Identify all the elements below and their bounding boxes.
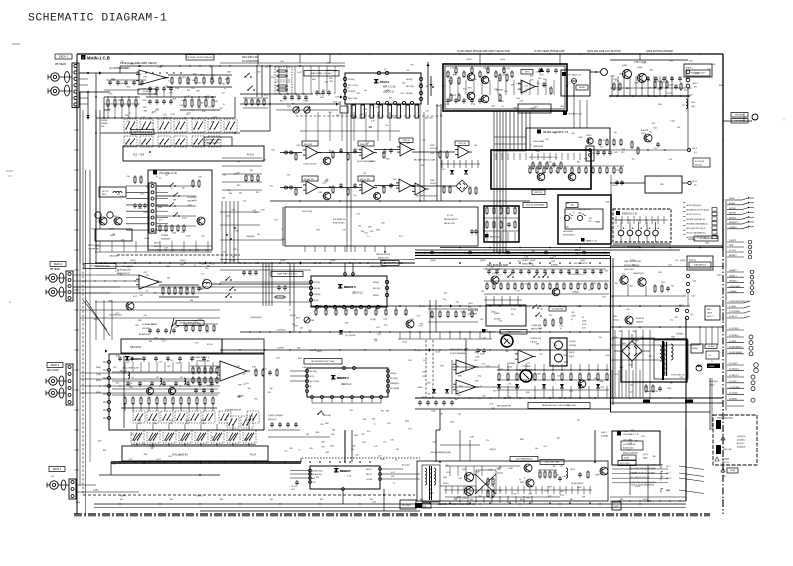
svg-text:MC AMP (DECK(B) (B): MC AMP (DECK(B) (B) <box>416 195 437 198</box>
pcb label MAIN-2 CB <box>581 238 585 242</box>
svg-text:(C 252: (C 252 <box>447 215 454 217</box>
svg-text:R21: R21 <box>408 429 411 431</box>
svg-text:R33: R33 <box>232 210 235 212</box>
svg-text:C44: C44 <box>372 419 375 421</box>
wire dolby4 right leads <box>382 468 404 470</box>
scan speck 2 <box>6 170 13 172</box>
svg-text:47p: 47p <box>241 396 244 398</box>
svg-text:R12: R12 <box>222 84 225 86</box>
svg-text:CH GND: CH GND <box>366 479 373 481</box>
svg-text:(C) 2(C)(M)(B): (C) 2(C)(M)(B) <box>729 311 740 313</box>
svg-text:R21: R21 <box>654 128 657 130</box>
svg-text:SP(B): SP(B) <box>169 423 173 425</box>
svg-text:+(B): +(B) <box>691 106 695 108</box>
svg-text:POWER: POWER <box>709 366 716 368</box>
svg-text:220: 220 <box>356 454 359 456</box>
svg-text:1u: 1u <box>573 211 575 213</box>
label bias trap coil adj 2 <box>271 272 303 277</box>
svg-text:R-CH: R-CH <box>250 455 256 457</box>
svg-text:GND BA(: GND BA( <box>323 414 331 417</box>
svg-text:R21: R21 <box>193 74 196 76</box>
wire pb L signal <box>79 72 139 74</box>
svg-text:(B)(C)(C)2: (B)(C)(C)2 <box>268 419 276 421</box>
svg-text:PB HEAD: PB HEAD <box>55 63 66 66</box>
svg-text:(C)2 (M)4(B): (C)2 (M)4(B) <box>142 91 152 93</box>
svg-text:100K: 100K <box>290 153 295 155</box>
svg-text:T(M)(C): T(M)(C) <box>443 483 449 485</box>
svg-text:47p: 47p <box>237 161 240 163</box>
filter LPF L07 <box>99 187 126 197</box>
wire volume1 verticals <box>95 110 97 263</box>
svg-text:R47: R47 <box>410 64 413 66</box>
svg-text:DECK-2: DECK-2 <box>51 365 60 367</box>
mid vertical bundle left <box>221 201 223 263</box>
scan speck 4 <box>9 301 11 303</box>
top-left extra density <box>108 81 112 83</box>
wire x686 long vertical <box>685 318 687 501</box>
svg-text:NR-2 C.B: NR-2 C.B <box>337 376 349 380</box>
svg-text:220: 220 <box>239 193 242 195</box>
svg-text:R33: R33 <box>530 75 533 77</box>
svg-text:220: 220 <box>486 440 489 442</box>
svg-text:VOLUME-2 C.B: VOLUME-2 C.B <box>623 434 639 436</box>
svg-text:( REF ): ( REF ) <box>196 496 203 498</box>
svg-text:D(C)(B) ONE(C)2: D(C)(B) ONE(C)2 <box>571 483 584 485</box>
svg-text:Q451-452 LINE OUT MUTING: Q451-452 LINE OUT MUTING <box>587 50 621 53</box>
connector right rows group A <box>727 199 742 201</box>
svg-text:AT AMP A.(C): AT AMP A.(C) <box>139 333 151 336</box>
svg-text:0.47: 0.47 <box>498 101 502 103</box>
svg-text:100K: 100K <box>264 95 269 97</box>
svg-text:10u: 10u <box>632 158 635 160</box>
wire verticals bottom left <box>110 462 112 475</box>
svg-text:C05: C05 <box>693 281 696 283</box>
svg-text:220: 220 <box>589 218 592 220</box>
svg-text:0.022: 0.022 <box>636 486 641 488</box>
svg-text:220: 220 <box>167 278 170 280</box>
svg-text:SP(B): SP(B) <box>137 423 141 425</box>
wire muting bus <box>610 95 690 97</box>
top-left cluster rails2 <box>104 89 140 91</box>
op-amp IC31 <box>139 275 159 289</box>
svg-text:C05: C05 <box>538 78 541 80</box>
connector cm row2 <box>285 186 288 189</box>
svg-text:10u: 10u <box>615 283 618 285</box>
svg-text:C44: C44 <box>280 61 283 63</box>
switch input select b <box>173 195 175 197</box>
svg-text:(C) L(M)(C): (C) L(M)(C) <box>729 363 738 365</box>
svg-text:220: 220 <box>626 309 629 311</box>
op-amp IC203a <box>458 146 469 158</box>
svg-text:L(NE OUT MUT(NG: L(NE OUT MUT(NG <box>624 261 641 263</box>
arrow bus462 <box>200 460 202 463</box>
svg-text:100K: 100K <box>610 76 615 78</box>
op-amp IC205 row2 <box>399 179 411 192</box>
svg-text:220: 220 <box>421 165 424 167</box>
svg-text:REC (N(L): REC (N(L) <box>390 378 398 380</box>
svg-text:BIAS TRAP COIL ADJ: BIAS TRAP COIL ADJ <box>311 72 333 75</box>
label pb sensitivity adj <box>131 130 154 135</box>
svg-text:D(SPLAY C.B: D(SPLAY C.B <box>622 213 637 216</box>
svg-text:220: 220 <box>151 324 154 326</box>
wire diagonal head wires <box>83 300 107 330</box>
svg-text:R21: R21 <box>254 398 257 400</box>
svg-text:0.022: 0.022 <box>391 115 396 117</box>
svg-text:10u: 10u <box>675 260 678 262</box>
svg-text:(C) (B)(C)(M)(C)2: (C) (B)(C)(M)(C)2 <box>729 346 742 348</box>
svg-text:C(B)(C)(M): C(B)(C)(M) <box>109 256 118 258</box>
switch matrix rec row2 <box>227 416 239 428</box>
svg-text:R12: R12 <box>282 239 285 241</box>
svg-text:NJM4565F: NJM4565F <box>161 239 171 241</box>
svg-text:(CC6) BACKUP: (CC6) BACKUP <box>384 262 397 265</box>
svg-text:METER (NPUT: METER (NPUT <box>444 219 458 221</box>
svg-text:L07 1/2: L07 1/2 <box>102 191 108 193</box>
svg-text:(CC201 WHO(E)EU)P: (CC201 WHO(E)EU)P <box>357 161 376 163</box>
svg-text:(R): (R) <box>694 87 697 89</box>
transistor Q202 <box>323 192 331 200</box>
top left nodes2 <box>145 72 146 73</box>
svg-text:HC3502: HC3502 <box>522 260 529 262</box>
passives deck1 rec block <box>124 398 126 404</box>
svg-text:1u: 1u <box>289 310 291 312</box>
svg-text:R2(C) (W: R2(C) (W <box>459 143 466 145</box>
hp top rail nodes <box>454 63 456 65</box>
svg-text:220: 220 <box>129 383 132 385</box>
svg-text:SP(B): SP(B) <box>185 423 189 425</box>
svg-text:0.47: 0.47 <box>376 327 380 329</box>
passives muting extra <box>674 85 678 87</box>
wire meter hlines <box>494 136 526 138</box>
svg-text:C31: C31 <box>320 412 323 414</box>
svg-text:C05: C05 <box>168 456 171 458</box>
pin row dolby2 left <box>309 280 312 283</box>
ic block small right <box>400 500 416 509</box>
svg-text:DC OUT(L)R: DC OUT(L)R <box>695 161 705 163</box>
connector fingers dolby1 <box>352 105 355 118</box>
label phones inner <box>576 85 588 90</box>
svg-text:1u: 1u <box>374 424 376 426</box>
svg-text:10u: 10u <box>689 95 692 97</box>
svg-text:R12: R12 <box>144 77 147 79</box>
svg-text:REC (B): REC (B) <box>314 288 321 290</box>
svg-text:C(M)(B)(M): C(M)(B)(M) <box>246 236 255 238</box>
resistor diode columns regulator <box>498 374 500 380</box>
svg-text:C05: C05 <box>202 111 205 113</box>
wire feedback top <box>120 65 212 67</box>
arrow bus350 <box>428 348 430 351</box>
svg-text:R08: R08 <box>606 201 609 203</box>
svg-text:(55)(C): (55)(C) <box>613 320 619 322</box>
trimmer vr31 <box>304 317 310 323</box>
svg-text:(B)4: (B)4 <box>320 499 323 501</box>
svg-text:CM3-2 SH/M: CM3-2 SH/M <box>533 141 544 143</box>
svg-text:R47: R47 <box>632 331 635 333</box>
svg-text:47p: 47p <box>227 215 230 217</box>
svg-text:47p: 47p <box>243 374 246 376</box>
pin labels dolby4 right <box>379 468 382 471</box>
svg-text:C44: C44 <box>680 377 683 379</box>
label DECK-1 <box>55 54 72 59</box>
led LED201 <box>564 215 569 220</box>
svg-text:R21: R21 <box>446 472 449 474</box>
svg-text:0.47: 0.47 <box>458 478 462 480</box>
svg-text:47p: 47p <box>443 299 446 301</box>
svg-text:NR-2 C.B: NR-2 C.B <box>340 470 351 473</box>
transistor Q204a <box>481 76 489 84</box>
svg-text:Q455 Q454: Q455 Q454 <box>624 269 634 271</box>
svg-text:LEC(MA) (ADA): LEC(MA) (ADA) <box>700 237 713 240</box>
connector right rows group D <box>727 302 744 304</box>
ic252 box density <box>514 208 516 213</box>
svg-text:L302: L302 <box>551 261 555 263</box>
svg-text:0.022: 0.022 <box>182 218 187 220</box>
switch matrix rec row <box>133 411 145 423</box>
svg-text:R33: R33 <box>705 242 708 244</box>
wire r65 link <box>610 182 645 184</box>
svg-text:(M)(B)(C)(C)(B)(C)(M): (M)(B)(C)(C)(B)(C)(M) <box>623 453 638 455</box>
svg-text:C05: C05 <box>179 105 182 107</box>
led bank display <box>618 230 624 236</box>
rec block extra rows <box>124 362 126 372</box>
svg-text:R33: R33 <box>505 351 508 353</box>
svg-text:C05: C05 <box>453 74 456 76</box>
svg-text:C44: C44 <box>156 281 159 283</box>
svg-text:C44: C44 <box>363 109 366 111</box>
svg-text:UH-O(T DROP (C): UH-O(T DROP (C) <box>686 214 701 216</box>
svg-text:R47: R47 <box>363 442 366 444</box>
pin row dolby3 bottom <box>311 396 314 399</box>
svg-text:R20(B) 1W: R20(B) 1W <box>304 179 314 181</box>
border top nodes <box>99 53 100 54</box>
svg-text:0.47: 0.47 <box>287 175 291 177</box>
svg-text:R08: R08 <box>536 151 539 153</box>
transistor Q801 <box>625 316 633 324</box>
power block outer box <box>621 339 687 382</box>
nodes y350 <box>239 349 240 350</box>
svg-text:10u: 10u <box>316 477 319 479</box>
svg-text:10u: 10u <box>671 285 674 287</box>
svg-text:1u: 1u <box>532 265 534 267</box>
svg-text:47p: 47p <box>564 366 567 368</box>
relay box <box>550 338 567 366</box>
svg-text:C44: C44 <box>474 145 477 147</box>
svg-text:0.022: 0.022 <box>198 319 203 321</box>
cell33 parts <box>304 246 306 252</box>
svg-text:220: 220 <box>557 375 560 377</box>
hp to meter wires <box>573 96 575 128</box>
svg-text:0.022: 0.022 <box>597 474 602 476</box>
display box stubs <box>620 236 622 242</box>
svg-text:47p: 47p <box>296 95 299 97</box>
pcb label DOLBY NR-2 C.B deck1 big <box>109 354 264 430</box>
svg-text:220: 220 <box>178 454 181 456</box>
svg-text:R12: R12 <box>675 317 678 319</box>
capacitor bank trap <box>283 96 287 98</box>
svg-text:C05: C05 <box>469 481 472 483</box>
deck2 mid band wires <box>220 269 311 271</box>
wire vline 595 <box>594 430 596 463</box>
pin row dolby1 top <box>377 71 380 74</box>
label reset sw ac cord power off <box>528 403 590 409</box>
svg-text:B NETWORK): B NETWORK) <box>333 223 345 225</box>
svg-text:0.022: 0.022 <box>304 101 309 103</box>
svg-text:220: 220 <box>549 315 552 317</box>
svg-text:Q453: Q453 <box>637 67 643 69</box>
svg-text:C44: C44 <box>222 175 225 177</box>
svg-text:R12: R12 <box>377 334 380 336</box>
hp block interior density <box>447 72 449 77</box>
resistor network muting <box>654 82 656 87</box>
svg-text:R12: R12 <box>603 296 606 298</box>
wire j451 stubs <box>687 88 689 96</box>
svg-text:R12: R12 <box>165 117 168 119</box>
svg-text:(C)(C)(B)(C): (C)(C)(B)(C) <box>737 440 746 442</box>
svg-text:1551(3)2: 1551(3)2 <box>430 148 438 150</box>
ground tab osc <box>415 503 422 508</box>
svg-text:0.022: 0.022 <box>327 70 332 72</box>
inductor L41 <box>128 372 130 378</box>
svg-text:47p: 47p <box>211 263 214 265</box>
svg-text:10u: 10u <box>292 324 295 326</box>
svg-text:R21: R21 <box>669 61 672 63</box>
svg-text:10u: 10u <box>174 327 177 329</box>
deck1 rec caps row <box>148 329 152 331</box>
svg-text:0.47: 0.47 <box>290 96 294 98</box>
svg-text:10u: 10u <box>284 450 287 452</box>
arrow bus306 <box>450 304 452 307</box>
svg-text:SW(: SW( <box>138 320 142 322</box>
svg-text:0.022: 0.022 <box>687 88 692 90</box>
rec switch matrix extension <box>219 411 231 423</box>
svg-text:(B)(M): (B)(M) <box>185 420 189 422</box>
svg-text:220: 220 <box>406 70 409 72</box>
svg-text:100K: 100K <box>431 410 436 412</box>
svg-text:Q52,3C51: Q52,3C51 <box>130 346 142 349</box>
svg-text:R21: R21 <box>257 71 260 73</box>
wire hp verticals bundle <box>509 111 511 150</box>
svg-text:1u: 1u <box>170 187 172 189</box>
svg-text:(DECK-2): (DECK-2) <box>352 292 363 295</box>
svg-text:R21: R21 <box>621 152 624 154</box>
svg-text:10u: 10u <box>165 175 168 177</box>
svg-text:C05: C05 <box>571 133 574 135</box>
wire bus y475 <box>99 474 220 476</box>
svg-text:R33: R33 <box>238 384 241 386</box>
power mid wires <box>610 344 700 346</box>
svg-text:C31: C31 <box>212 81 215 83</box>
jack phones front <box>601 69 608 76</box>
svg-text:R21: R21 <box>548 496 551 498</box>
svg-text:R21: R21 <box>131 434 134 436</box>
svg-text:R21: R21 <box>517 261 520 263</box>
trimmer VR2 <box>304 107 310 113</box>
wire thick bus y462 <box>111 461 301 463</box>
svg-text:POWER: POWER <box>161 235 169 237</box>
svg-text:R12: R12 <box>152 231 155 233</box>
svg-text:0.022: 0.022 <box>667 93 672 95</box>
svg-text:C05: C05 <box>363 419 366 421</box>
svg-text:R12: R12 <box>127 87 130 89</box>
svg-text:(M)(C): (M)(C) <box>569 356 574 358</box>
svg-text:(B)4: (B)4 <box>220 499 223 501</box>
svg-text:C05: C05 <box>267 392 270 394</box>
svg-text:(C)203: (C)203 <box>466 59 472 61</box>
label deck1 play line out <box>687 256 713 270</box>
wire main board bottom border <box>74 513 710 515</box>
connector J1 pb head deck-1 <box>72 63 79 107</box>
svg-text:LED(T)(B) DROP (B) (C): LED(T)(B) DROP (B) (C) <box>686 228 706 230</box>
svg-text:R47: R47 <box>321 447 324 449</box>
svg-text:R-CH: R-CH <box>511 309 517 311</box>
ic block R65 <box>518 104 551 113</box>
svg-text:1u: 1u <box>212 75 214 77</box>
switch input select c <box>169 205 171 207</box>
svg-text:LED(MA): LED(MA) <box>688 238 696 241</box>
transformer frame <box>654 340 688 379</box>
cable shield bottom <box>61 480 66 490</box>
transistor Q301 <box>491 276 499 284</box>
svg-text:(B)4: (B)4 <box>420 499 423 501</box>
svg-text:(C) (M)(B)(C): (C) (M)(B)(C) <box>729 335 739 337</box>
label q404 boxed <box>510 457 538 462</box>
svg-text:R33: R33 <box>296 318 299 320</box>
svg-text:J452-1: J452-1 <box>692 181 697 183</box>
svg-text:220: 220 <box>470 491 473 493</box>
ic block meter input selector <box>484 206 519 242</box>
trim box dolby1 bottomleft <box>340 106 348 113</box>
svg-text:CC201 1551747: CC201 1551747 <box>303 164 317 166</box>
svg-text:100K: 100K <box>508 468 513 470</box>
svg-text:0.022: 0.022 <box>435 351 440 353</box>
op-amp voltage det <box>518 350 533 363</box>
svg-text:R21: R21 <box>143 107 146 109</box>
switch matrix bottom row <box>131 430 144 443</box>
svg-text:C05: C05 <box>363 173 366 175</box>
svg-text:R12: R12 <box>387 423 390 425</box>
bottom border thickening <box>74 515 710 517</box>
top border stubs <box>257 54 259 65</box>
svg-text:B(AS TRAP CO(L ADJ: B(AS TRAP CO(L ADJ <box>278 273 297 276</box>
wire main mid bus <box>95 262 415 264</box>
svg-text:R08: R08 <box>298 358 301 360</box>
op-amp IC204a row2 <box>302 176 318 181</box>
muting area more <box>646 77 650 79</box>
svg-text:10u: 10u <box>535 448 538 450</box>
arrow bus263 <box>300 261 302 264</box>
ic252 extra vertical stubs <box>486 232 488 241</box>
svg-text:R21: R21 <box>391 184 394 186</box>
svg-text:100K: 100K <box>149 445 154 447</box>
svg-text:R47: R47 <box>103 450 106 452</box>
wire dolby1 to hp risers <box>436 104 438 201</box>
volume1 interior extra <box>156 185 168 187</box>
svg-text:REC OUT(B): REC OUT(B) <box>310 381 320 383</box>
svg-text:100K: 100K <box>335 97 340 99</box>
svg-text:(304 AMP): (304 AMP) <box>468 313 477 316</box>
svg-text:IC 251 HEAD PHONE AMP: IC 251 HEAD PHONE AMP <box>534 50 565 53</box>
inductor L21 lpf <box>203 280 212 289</box>
svg-text:220: 220 <box>482 396 485 398</box>
svg-text:DECK-1: DECK-1 <box>59 55 69 58</box>
svg-text:R12: R12 <box>517 98 520 100</box>
svg-text:R08: R08 <box>658 104 661 106</box>
svg-text:J451-2: J451-2 <box>692 83 698 85</box>
svg-text:R47: R47 <box>553 466 556 468</box>
svg-text:C05: C05 <box>145 290 148 292</box>
ic block ac inlet <box>691 344 703 353</box>
bus band nodes2 <box>459 247 461 249</box>
